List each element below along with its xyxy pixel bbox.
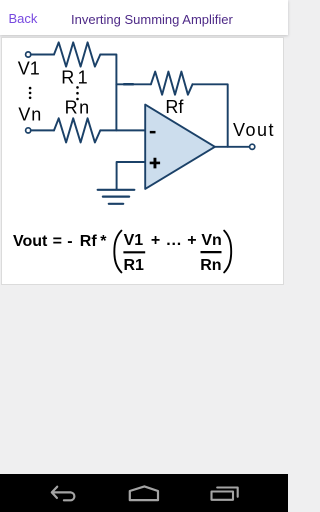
input terminal Vn — [26, 128, 31, 133]
bottom navigation bar — [0, 474, 288, 512]
formula right parenthesis — [224, 231, 231, 273]
op-amp U1 — [145, 105, 215, 189]
op-amp inverting input minus sign — [150, 131, 156, 134]
wire node A to Rf — [116, 83, 150, 85]
svg-text:R1: R1 — [123, 257, 144, 274]
formula fraction bar V1/R1 — [123, 251, 145, 253]
svg-text:Vn: Vn — [18, 105, 42, 125]
wire R1 to node A — [100, 55, 116, 131]
ellipsis dots V column — [29, 87, 32, 90]
wire op-amp output to Vout terminal — [215, 146, 250, 148]
Back button — [9, 12, 38, 25]
svg-text:Vout=-Rf*: Vout=-Rf* — [13, 233, 107, 250]
svg-text:V1: V1 — [124, 232, 144, 249]
nav back icon — [52, 487, 75, 501]
resistor Rf — [151, 72, 193, 95]
nav home icon — [130, 486, 158, 500]
title Inverting Summing Amplifier — [71, 15, 233, 25]
svg-text:Rn: Rn — [200, 257, 221, 274]
wire op-amp non-inverting input to ground — [117, 162, 146, 189]
wire V1 terminal to R1 — [31, 54, 54, 56]
wire Vn terminal to Rn — [31, 129, 54, 131]
resistor R1 — [54, 42, 100, 66]
resistor Rn — [54, 118, 100, 142]
svg-text:Vn: Vn — [201, 232, 221, 249]
svg-text:Vout: Vout — [233, 120, 275, 140]
formula left parenthesis — [114, 231, 121, 273]
svg-text:V1: V1 — [18, 59, 40, 79]
svg-text:R1: R1 — [61, 68, 91, 88]
ground — [98, 190, 135, 204]
nav recents icon — [212, 488, 238, 500]
junction dash on Rf wire — [124, 83, 133, 86]
output terminal Vout — [250, 144, 255, 149]
svg-text:+ ... +: + ... + — [151, 232, 198, 249]
svg-text:Rn: Rn — [65, 98, 91, 118]
wire Rf to output node — [193, 84, 228, 147]
ellipsis dots R column — [76, 86, 79, 89]
input terminal V1 — [26, 52, 31, 57]
svg-text:Rf: Rf — [165, 97, 184, 117]
wire node A to op-amp inverting input — [100, 129, 145, 131]
op-amp non-inverting input plus sign — [150, 158, 160, 169]
header bar — [0, 0, 288, 35]
formula fraction bar Vn/Rn — [201, 251, 222, 253]
schematic card — [1, 37, 284, 285]
